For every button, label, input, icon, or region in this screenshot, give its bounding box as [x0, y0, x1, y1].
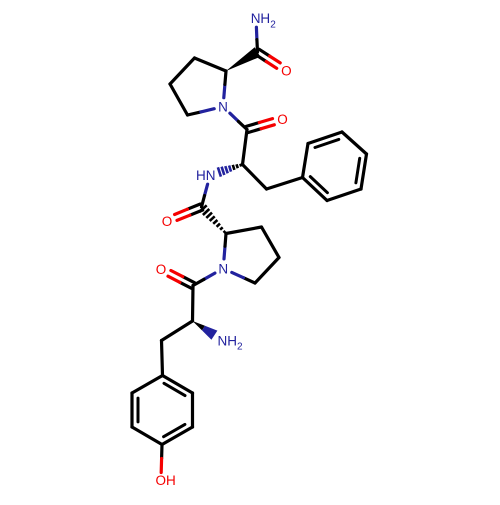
- wire: bold wedge Pro1 C2 - C(=O): [226, 47, 260, 71]
- wire: double bond C=O (Phe amide): [248, 129, 261, 133]
- wire: bond CA-CB Tyr: [162, 321, 193, 341]
- wire: double bond C=O (Pro2 amide): [187, 204, 200, 209]
- wire: Pro1 ring C3-C4: [170, 58, 195, 84]
- wire: phenyl inner double bond 2: [356, 158, 360, 183]
- wire: bond CB-phenyl ipso: [267, 178, 303, 190]
- wire: phenyl ring edge C6-ipso: [303, 178, 328, 201]
- wire: bond NH - C(=O) Pro2: [205, 184, 208, 195]
- wire: Pro2 ring C3-C4: [262, 227, 280, 258]
- wire: Pro1 ring C4-C5: [170, 84, 188, 115]
- wire: Pro2 ring C5-N: [243, 278, 255, 283]
- wire: phenyl ring edge C2-C3: [308, 132, 342, 144]
- svg-text:O: O: [162, 214, 173, 229]
- wire: Pro2 ring N-C2: [224, 246, 225, 259]
- wire: hashed wedge Pro2 C2 - C(=O): [224, 231, 226, 233]
- wire: phenyl ring edge C4-C5: [361, 154, 367, 189]
- wire: bond N1 - C(=O) Phe: [230, 113, 239, 121]
- wire: Pro1 ring C2-C3: [195, 58, 227, 71]
- wire: phenyl ring edge C3-C4: [342, 132, 367, 154]
- wire: phenyl ring edge ipso-C2: [303, 144, 309, 178]
- wire: double bond C=O (Tyr amide): [183, 277, 195, 283]
- wire: phenol ring edge 5: [191, 393, 194, 427]
- wire: phenol ring edge 2: [130, 393, 133, 427]
- wire: bond N(amide NH2) - C(=O) top: [255, 27, 259, 39]
- wire: Pro1 ring N1-C2: [224, 84, 225, 97]
- wire: Pro1 ring C5-N1: [188, 112, 201, 115]
- wire: phenol inner double bond 2: [164, 424, 185, 436]
- wire: phenol ring edge 6: [163, 376, 193, 394]
- wire: bond phenol C-OH: [160, 445, 164, 459]
- wire: bold wedge CA Tyr - NH2: [193, 321, 205, 330]
- wire: bond N Pro2 - C(=O) Tyr: [204, 273, 215, 279]
- svg-text:O: O: [156, 262, 167, 277]
- wire: bond CA-CB Phe: [243, 165, 267, 190]
- wire: phenyl inner double bond 1: [315, 139, 339, 147]
- svg-text:HN: HN: [196, 168, 216, 183]
- wire: phenyl inner double bond 3: [310, 177, 327, 193]
- wire: bond CB-phenol ipso: [162, 341, 163, 376]
- wire: Pro2 ring C4-C5: [255, 258, 279, 284]
- wire: bond C(=O)-CA Phe: [243, 130, 248, 165]
- wire: phenol ring edge 4: [162, 427, 193, 445]
- wire: phenol inner double bond 3: [164, 383, 185, 395]
- wire: double bond C=O (top carboxamide): [256, 55, 266, 62]
- svg-text:O: O: [281, 64, 292, 79]
- wire: phenol ring edge 3: [132, 427, 162, 445]
- wire: phenyl ring edge C5-C6: [327, 189, 361, 201]
- wire: hashed wedge CA Phe - NH: [239, 164, 242, 167]
- svg-text:OH: OH: [156, 473, 176, 488]
- wire: phenol ring edge 1: [132, 376, 163, 394]
- svg-text:N: N: [218, 100, 228, 115]
- svg-text:N: N: [218, 261, 228, 276]
- wire: bond C(=O)-CA Tyr: [191, 286, 195, 322]
- wire: Pro2 ring C2-C3: [226, 227, 262, 234]
- svg-text:O: O: [277, 112, 288, 127]
- wire: phenol inner double bond 1: [137, 398, 140, 422]
